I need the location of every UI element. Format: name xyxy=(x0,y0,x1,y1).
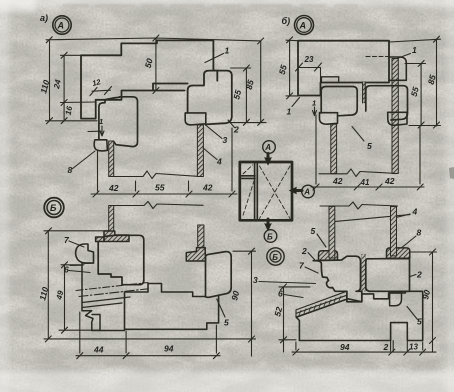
dim 50 vertical inside frame xyxy=(155,38,157,91)
extension lines xyxy=(296,324,423,351)
svg-text:42: 42 xyxy=(332,176,343,186)
svg-text:2: 2 xyxy=(416,270,422,280)
tick xyxy=(313,184,319,190)
page edge lightening bottom xyxy=(0,371,454,392)
glass bar incoming (view B-left inner) xyxy=(109,206,114,233)
tick xyxy=(47,118,53,124)
section circle A xyxy=(53,16,71,34)
extension line xyxy=(135,181,137,191)
top cap piece left (view B-right) xyxy=(319,251,338,260)
page edge lightening right xyxy=(446,0,454,392)
leader 5 xyxy=(217,299,225,317)
leader 3 xyxy=(206,125,223,139)
leader line 6 xyxy=(284,295,303,298)
tick xyxy=(77,353,83,359)
dim 23 with arrows xyxy=(299,68,321,84)
dim line 42/55/42 (below view A-left) xyxy=(91,193,237,195)
tick xyxy=(186,191,192,197)
plan transom horizontal xyxy=(241,176,256,179)
svg-text:42: 42 xyxy=(384,176,395,186)
dim line 42/41/42 (below view A-right) xyxy=(311,186,424,188)
dashed seal line xyxy=(366,56,389,58)
sash left (view A-right) xyxy=(321,87,357,116)
svg-text:42: 42 xyxy=(108,183,119,193)
svg-text:5: 5 xyxy=(417,317,422,327)
glass bar left (view A-left) xyxy=(109,141,114,177)
tick xyxy=(430,338,436,344)
drip solid lines (view B-left) xyxy=(82,297,130,308)
svg-text:8: 8 xyxy=(417,228,422,238)
top stub xyxy=(61,54,83,56)
svg-text:4: 4 xyxy=(216,157,222,167)
leader xyxy=(410,275,416,277)
drip slanted band (view B-right) xyxy=(296,292,348,317)
svg-text:94: 94 xyxy=(340,342,350,352)
tick xyxy=(281,284,287,290)
leader xyxy=(305,267,318,273)
svg-text:55: 55 xyxy=(155,183,165,193)
svg-text:42: 42 xyxy=(202,183,213,193)
bead right (view A-right) xyxy=(388,112,407,125)
tick xyxy=(46,228,52,234)
extension line right xyxy=(231,128,233,191)
dim 55 vertical right of sash xyxy=(245,68,247,122)
tick xyxy=(249,248,255,254)
svg-text:А: А xyxy=(299,21,307,31)
dim 55 right (view A-right) xyxy=(420,64,422,127)
break line upper (view A-left glass) xyxy=(114,171,198,179)
section circle A xyxy=(295,16,314,35)
section arrow bottom xyxy=(267,219,270,228)
top cap piece right (view B-right) xyxy=(387,248,410,258)
section arrow right xyxy=(294,189,303,192)
svg-text:13: 13 xyxy=(409,343,418,352)
tick xyxy=(420,349,426,355)
svg-text:6: 6 xyxy=(64,265,69,275)
break line lower (view B-left glass top) xyxy=(114,202,203,209)
tick xyxy=(293,349,299,355)
leader to right bar xyxy=(390,214,410,219)
bleed text row top xyxy=(62,4,358,7)
svg-text:1: 1 xyxy=(287,107,292,117)
bleed text row bottom xyxy=(30,361,436,364)
extension line right xyxy=(419,127,421,184)
svg-text:1: 1 xyxy=(225,46,230,56)
dim 12 with arrows xyxy=(92,90,111,91)
svg-text:2: 2 xyxy=(383,342,389,352)
tick xyxy=(229,191,235,197)
dim 52 left (view B-right) xyxy=(283,287,285,352)
svg-text:Б: Б xyxy=(272,253,278,262)
svg-text:44: 44 xyxy=(93,345,104,355)
section circle B xyxy=(44,198,64,218)
tick xyxy=(376,184,382,190)
tick xyxy=(93,191,99,197)
glass bar right through sash (view A-right) xyxy=(392,59,398,174)
leader 6 xyxy=(69,271,90,273)
break line lower (view B-right glass top) xyxy=(320,202,398,209)
dim 90 right (view B-right) xyxy=(432,252,434,352)
drip slanted lines (view B-left) xyxy=(76,283,148,291)
glass bar right (view B-right) xyxy=(391,207,397,256)
tick xyxy=(404,349,410,355)
groove in frame underside xyxy=(322,77,339,83)
tick xyxy=(258,119,264,125)
tick xyxy=(133,191,139,197)
divider strip between sashes xyxy=(362,82,365,103)
svg-text:2: 2 xyxy=(301,246,307,256)
svg-text:3: 3 xyxy=(253,275,258,285)
leader line 3 xyxy=(259,282,316,284)
sash profile outer-right (view A-left) xyxy=(188,71,232,125)
outer sash block (view B-left) xyxy=(206,252,232,298)
svg-text:1: 1 xyxy=(312,99,316,108)
leader 8 xyxy=(72,151,95,169)
section circle A top xyxy=(263,141,276,154)
leader xyxy=(352,127,364,142)
svg-text:а): а) xyxy=(40,13,48,23)
window plan outer frame xyxy=(240,162,292,220)
tick xyxy=(434,122,440,128)
tick xyxy=(389,349,395,355)
corner whiteout top-left xyxy=(0,0,36,13)
dimension line 110 vertical (view B-left) xyxy=(47,231,49,339)
svg-text:Б: Б xyxy=(50,203,57,213)
tick xyxy=(243,119,249,125)
long baseline at 339 xyxy=(44,338,256,340)
svg-text:А: А xyxy=(57,21,65,31)
section circle A right xyxy=(302,185,315,198)
page edge lightening left xyxy=(0,0,9,392)
leader xyxy=(317,234,326,247)
clearance arrow 1 xyxy=(100,126,104,136)
extension line from bead xyxy=(97,151,99,191)
svg-text:3: 3 xyxy=(223,135,228,145)
leader xyxy=(397,54,411,59)
mid stub xyxy=(61,101,96,104)
svg-text:1: 1 xyxy=(412,45,417,55)
sash profile inner-left (view A-left) xyxy=(99,97,138,147)
dimension line top (view A-left) xyxy=(46,38,261,41)
tick xyxy=(418,61,424,67)
leader xyxy=(292,98,300,107)
extension line left xyxy=(315,115,317,184)
plan diagonal left cell xyxy=(243,181,254,215)
sill block (view B-left) xyxy=(125,284,219,330)
leader 1 xyxy=(205,54,224,63)
svg-text:94: 94 xyxy=(164,344,174,354)
stub at 330 xyxy=(59,329,99,331)
tick xyxy=(46,37,52,43)
bead piece under right sash (view B-right) xyxy=(390,293,402,306)
tick xyxy=(430,249,436,255)
sill block (view B-right) xyxy=(296,291,423,340)
svg-text:А: А xyxy=(303,188,310,197)
svg-text:8: 8 xyxy=(68,165,73,175)
right sash block (view B-right) xyxy=(366,259,410,292)
break line (view A-right glass) xyxy=(319,169,398,177)
leader xyxy=(308,253,315,260)
top cap piece 7 (view B-left) xyxy=(96,231,129,242)
tick xyxy=(153,88,159,94)
leader 4 xyxy=(203,148,217,160)
tick xyxy=(258,38,264,44)
page edge lightening top xyxy=(0,0,454,6)
stub under blob xyxy=(70,264,82,266)
dim 90 right (view B-left) xyxy=(251,251,253,356)
plan divider vertical xyxy=(255,162,258,220)
bottom dim line (view B-right) xyxy=(292,351,436,353)
tick xyxy=(62,327,68,333)
sill frame piece 6 (view B-left) xyxy=(82,263,125,331)
svg-text:5: 5 xyxy=(311,226,316,236)
bead left (view A-right) xyxy=(320,113,338,125)
svg-text:5: 5 xyxy=(224,318,229,328)
left sash block (view B-right) xyxy=(313,256,362,302)
tick xyxy=(213,353,219,359)
tick xyxy=(61,100,67,106)
tick xyxy=(417,184,423,190)
dim 85 vertical xyxy=(260,41,262,122)
section arrow top xyxy=(267,154,270,163)
tick xyxy=(281,337,287,343)
frame head profile (view A-right) xyxy=(298,41,389,96)
glass bar left (view A-right) xyxy=(331,124,337,173)
glazing bead (view A-left right sash) xyxy=(185,113,206,125)
svg-text:5: 5 xyxy=(367,141,372,151)
glazing bead 8 (view A-left) xyxy=(94,140,107,151)
tick xyxy=(418,122,424,128)
tick xyxy=(287,93,293,99)
dim 55 left (view A-right) xyxy=(289,40,291,96)
sash bottom rail left blob (view B-left) xyxy=(76,244,94,263)
svg-text:Б: Б xyxy=(267,232,273,241)
leader xyxy=(407,307,418,320)
dim 85 right (view A-right) xyxy=(436,39,438,126)
svg-text:А: А xyxy=(264,143,271,152)
sash right (view A-right) xyxy=(366,86,408,120)
dimension line 110 vertical xyxy=(49,41,51,121)
small extension left xyxy=(88,130,101,132)
glass bar right (view A-left) xyxy=(197,125,203,177)
leader xyxy=(400,236,416,249)
tick xyxy=(434,36,440,42)
tick xyxy=(249,336,255,342)
section circle B double xyxy=(267,248,284,265)
tick xyxy=(287,37,293,43)
plan diagonals X right cell xyxy=(260,166,291,219)
clearance arrow 1 (view A-right) xyxy=(313,107,317,116)
svg-text:23: 23 xyxy=(304,55,314,64)
drip hatch (view B-right) xyxy=(299,296,341,315)
bottom dim line (view B-left) xyxy=(76,355,220,357)
tick xyxy=(61,118,67,124)
plan diagonal small cell xyxy=(243,165,253,174)
top cap piece (view B-left outer) xyxy=(186,248,205,261)
top cap piece (view A-right) xyxy=(389,57,406,80)
glass bar left (view B-right) xyxy=(329,207,335,259)
dimension line 24/16 vertical xyxy=(63,55,65,120)
dim line top stub (view B-left) xyxy=(44,230,113,232)
svg-text:41: 41 xyxy=(360,178,370,187)
tick xyxy=(123,353,129,359)
tick xyxy=(354,184,360,190)
frame head profile 1 xyxy=(81,40,217,118)
leader 7 xyxy=(69,241,84,247)
section circle B bottom xyxy=(264,230,277,243)
svg-text:б): б) xyxy=(282,16,291,26)
tick xyxy=(61,52,67,58)
extension line xyxy=(188,181,190,191)
leader 2 xyxy=(228,120,235,128)
tick xyxy=(62,262,68,268)
tick xyxy=(243,65,249,71)
divider strip (view B-right) xyxy=(362,255,365,292)
dim 49 vertical (view B-left) xyxy=(64,265,66,330)
glass bar incoming (view B-left outer) xyxy=(198,225,204,248)
tick xyxy=(45,336,51,342)
leader to left bar xyxy=(334,215,410,222)
tick xyxy=(153,35,159,41)
bottom stub of 110 dim xyxy=(46,120,98,122)
scan artifact right edge xyxy=(449,167,454,179)
svg-text:4: 4 xyxy=(412,207,418,217)
extension lines xyxy=(80,312,217,353)
sash bottom main block (view B-left) xyxy=(98,235,144,284)
